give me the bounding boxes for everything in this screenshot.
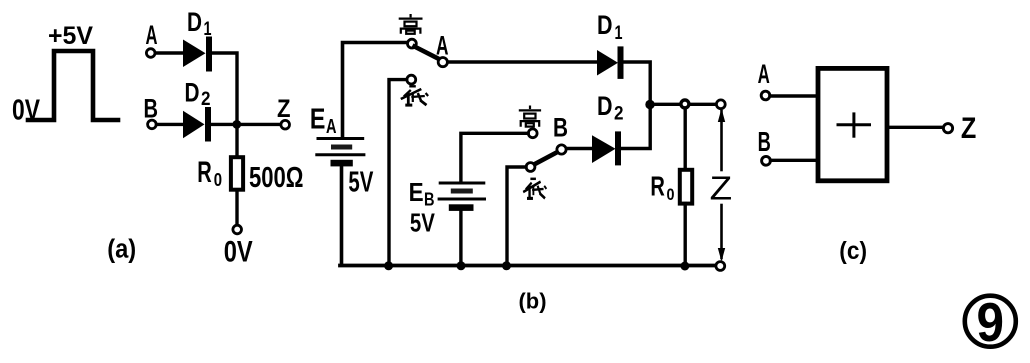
wire low contact A to ground rail xyxy=(389,80,407,265)
svg-text:Z: Z xyxy=(710,170,733,207)
switch A common contact (node A) xyxy=(438,58,447,67)
terminal R0 top (b) xyxy=(681,100,689,108)
terminal Z (c) xyxy=(943,124,952,133)
waveform +5V pulse xyxy=(28,51,118,120)
svg-text:E: E xyxy=(310,104,326,136)
svg-text:2: 2 xyxy=(614,104,624,125)
wire battery EA to ground rail xyxy=(340,166,344,265)
resistor R0 (b) xyxy=(680,170,692,204)
svg-text:Z: Z xyxy=(961,112,976,145)
switch B high contact xyxy=(528,129,537,138)
switch B low contact xyxy=(526,163,535,172)
wire switch B common to D2 xyxy=(567,147,592,150)
switch A low contact xyxy=(407,75,416,84)
svg-text:B: B xyxy=(144,94,159,124)
figure number 9 (circled) xyxy=(965,291,1016,353)
svg-text:0V: 0V xyxy=(224,235,253,268)
svg-text:0V: 0V xyxy=(12,95,41,127)
battery EB xyxy=(439,183,484,211)
svg-text:E: E xyxy=(409,177,424,207)
svg-text:9: 9 xyxy=(977,291,1005,353)
terminal bottom-right (b) xyxy=(716,262,725,271)
wire switch B high contact to battery EB xyxy=(461,133,528,182)
wire switch A common to D1 xyxy=(448,60,597,63)
wire A to adder box xyxy=(770,94,818,97)
label high (switch B) xyxy=(519,106,541,127)
svg-text:D: D xyxy=(597,10,613,40)
svg-text:2: 2 xyxy=(201,89,211,110)
svg-text:B: B xyxy=(424,190,435,210)
junction low-A rail xyxy=(384,261,393,270)
wire top-left from rail to switch A high contact xyxy=(343,43,407,139)
junction low-B rail xyxy=(502,261,511,270)
wire D1 cathode to node xyxy=(624,62,651,100)
wire resistor to 0V terminal xyxy=(235,192,238,225)
output arrow Z (b) top xyxy=(718,109,725,171)
ground rail (bottom) xyxy=(340,264,720,268)
battery EA xyxy=(317,139,364,167)
wire terminal to resistor R0 (b) xyxy=(684,108,687,170)
junction R0 rail xyxy=(680,262,689,271)
terminal A (c) xyxy=(761,91,770,100)
svg-text:Z: Z xyxy=(277,95,291,123)
svg-text:1: 1 xyxy=(615,23,623,44)
terminal A (a) xyxy=(146,49,155,58)
wire A to D1 xyxy=(156,51,184,54)
wire D2 cathode to node xyxy=(621,108,650,149)
adder box U1 xyxy=(818,68,887,180)
terminal B (a) xyxy=(148,120,157,129)
svg-text:A: A xyxy=(436,31,449,61)
switch A high contact xyxy=(408,39,417,48)
svg-text:1: 1 xyxy=(204,19,212,40)
wire node to resistor R0 xyxy=(235,124,238,157)
svg-text:R: R xyxy=(197,156,212,189)
output arrow Z (b) bottom xyxy=(718,205,725,262)
terminal 0V (a) xyxy=(233,225,242,234)
wire B to D2 xyxy=(157,123,184,126)
wire battery EB to ground rail xyxy=(459,211,462,265)
terminal Z (a) xyxy=(281,120,290,129)
wire D2 to terminal Z xyxy=(211,123,281,126)
svg-text:B: B xyxy=(758,126,771,157)
diode D2 (a) xyxy=(183,110,208,139)
terminal B (c) xyxy=(762,156,771,165)
svg-text:500Ω: 500Ω xyxy=(249,162,304,194)
wire node to output terminals xyxy=(650,103,716,106)
diode D1 (a) xyxy=(183,40,209,69)
svg-text:A: A xyxy=(758,59,770,89)
junction node (a) xyxy=(232,120,241,129)
switch B arm xyxy=(534,152,558,165)
wire D1 cathode to node Z column xyxy=(212,53,237,121)
switch B common contact (node B) xyxy=(557,145,566,154)
svg-text:R: R xyxy=(650,171,665,202)
svg-text:(a): (a) xyxy=(107,235,136,263)
wire adder box to terminal Z xyxy=(889,126,943,129)
diode D2 (b) xyxy=(592,134,618,163)
svg-text:D: D xyxy=(597,91,613,121)
svg-text:A: A xyxy=(146,20,158,50)
wire low contact B to ground rail xyxy=(507,167,526,265)
label high (switch A) xyxy=(399,14,423,34)
svg-text:A: A xyxy=(326,116,337,138)
svg-text:0: 0 xyxy=(214,170,222,190)
label low (switch B) xyxy=(523,179,546,199)
wire B to adder box xyxy=(771,159,819,162)
wire resistor R0 to rail (b) xyxy=(684,204,687,265)
diode D1 (b) xyxy=(597,49,621,76)
svg-text:D: D xyxy=(187,7,202,37)
label low (switch A) xyxy=(401,86,428,106)
svg-text:(c): (c) xyxy=(839,237,867,265)
svg-text:(b): (b) xyxy=(519,289,547,314)
plus symbol xyxy=(838,114,870,136)
terminal Z top (b) xyxy=(716,100,725,109)
switch A arm xyxy=(415,47,440,60)
junction EB rail xyxy=(457,261,466,270)
svg-text:5V: 5V xyxy=(348,167,373,199)
resistor R0 (a) xyxy=(231,157,243,190)
junction node output (b) xyxy=(645,100,654,109)
svg-text:0: 0 xyxy=(667,185,675,204)
svg-text:D: D xyxy=(185,78,200,108)
svg-text:B: B xyxy=(553,113,568,143)
svg-text:+5V: +5V xyxy=(48,22,93,50)
svg-text:5V: 5V xyxy=(410,208,436,238)
